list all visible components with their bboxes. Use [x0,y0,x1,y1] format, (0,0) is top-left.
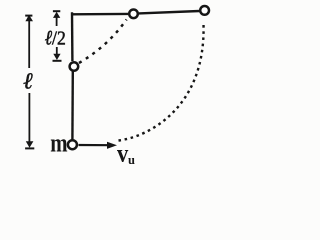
rod horizontal segment 1 [71,13,128,16]
dimension l/2: top arrowhead [53,12,60,18]
dimension l/2: bottom cap [53,60,62,62]
dimension l/2: upper stem [56,15,58,26]
dimension l: lower stem [28,93,30,143]
dimension l/2: bottom arrowhead [53,54,60,60]
svg-text:u: u [128,153,135,167]
dotted trajectory arc A (l/2 mass) [79,20,127,64]
circle: top right [200,6,209,15]
dimension l: bottom arrowhead [26,141,34,148]
dotted trajectory arc B (mass m) [119,24,204,141]
dimension l: bottom cap [25,147,34,149]
svg-text:v: v [117,140,128,167]
dimension l/2: lower stem [56,47,58,56]
svg-text:ℓ/2: ℓ/2 [45,27,66,50]
dimension l/2: top cap [53,10,60,12]
velocity arrow line [79,144,111,146]
rod vertical segment 2 [71,72,74,140]
dimension l: top cap [25,15,32,17]
circle: bottom (mass m) [68,140,77,149]
rod vertical segment 1 [71,12,74,61]
circle: top middle [129,10,138,19]
dimension l: top arrowhead [25,15,33,21]
rod horizontal segment 2 [139,11,200,13]
dimension l: upper stem [28,19,30,68]
svg-text:ℓ: ℓ [23,69,33,94]
circle: mid left [70,62,79,71]
svg-text:m: m [50,129,68,158]
velocity arrowhead [107,142,117,149]
